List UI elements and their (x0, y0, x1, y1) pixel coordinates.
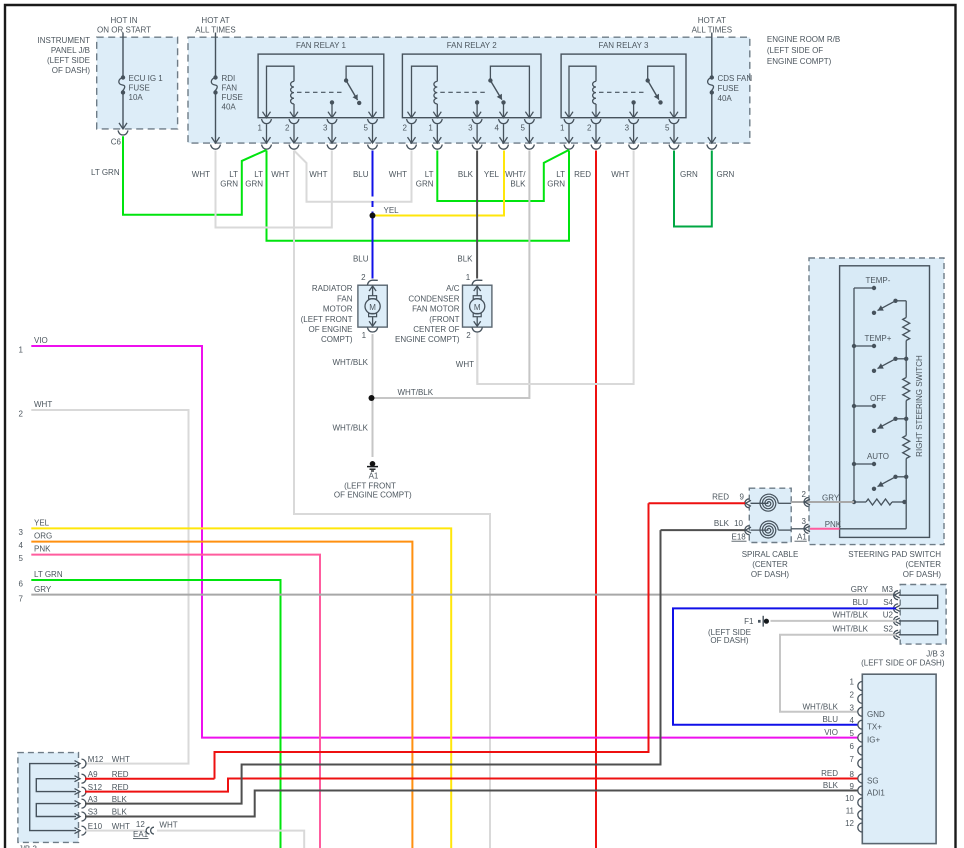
svg-text:U2: U2 (883, 611, 894, 620)
svg-text:2: 2 (285, 124, 290, 133)
svg-text:PNK: PNK (34, 545, 51, 554)
svg-text:3: 3 (850, 703, 855, 712)
svg-text:E10: E10 (88, 822, 103, 831)
svg-text:CONDENSER: CONDENSER (408, 294, 459, 303)
svg-text:9: 9 (740, 492, 745, 501)
svg-text:M3: M3 (882, 585, 894, 594)
svg-text:YEL: YEL (484, 170, 500, 179)
svg-text:WHT: WHT (192, 170, 210, 179)
svg-text:WHT: WHT (611, 170, 629, 179)
svg-text:FUSE: FUSE (129, 84, 150, 93)
svg-text:6: 6 (19, 580, 24, 589)
svg-text:WHT/: WHT/ (505, 170, 526, 179)
svg-text:LT: LT (556, 170, 565, 179)
svg-text:4: 4 (19, 541, 24, 550)
svg-text:3: 3 (323, 124, 328, 133)
svg-text:ALL TIMES: ALL TIMES (692, 26, 732, 35)
svg-text:FAN RELAY 2: FAN RELAY 2 (447, 41, 498, 50)
svg-text:OF DASH): OF DASH) (751, 570, 790, 579)
svg-text:(CENTER: (CENTER (752, 560, 788, 569)
svg-text:WHT/BLK: WHT/BLK (332, 358, 368, 367)
svg-text:10: 10 (734, 519, 743, 528)
svg-text:STEERING PAD SWITCH: STEERING PAD SWITCH (848, 550, 941, 559)
svg-text:WHT/BLK: WHT/BLK (802, 702, 838, 711)
svg-text:GRN: GRN (245, 180, 263, 189)
svg-text:WHT: WHT (112, 822, 130, 831)
svg-text:E18: E18 (732, 533, 747, 542)
svg-text:OF DASH): OF DASH) (710, 636, 749, 645)
svg-text:ENGINE COMPT): ENGINE COMPT) (767, 57, 832, 66)
svg-text:LT: LT (425, 170, 434, 179)
svg-text:BLK: BLK (457, 255, 473, 264)
svg-text:1: 1 (428, 124, 433, 133)
svg-text:(FRONT: (FRONT (429, 315, 459, 324)
svg-text:BLU: BLU (353, 170, 369, 179)
svg-text:RADIATOR: RADIATOR (312, 284, 353, 293)
svg-text:BLK: BLK (458, 170, 474, 179)
svg-text:BLU: BLU (822, 715, 838, 724)
svg-text:LT GRN: LT GRN (91, 168, 120, 177)
svg-text:YEL: YEL (384, 206, 400, 215)
svg-text:FUSE: FUSE (222, 93, 243, 102)
svg-text:RED: RED (112, 783, 129, 792)
svg-text:S4: S4 (883, 598, 893, 607)
svg-text:4: 4 (850, 716, 855, 725)
svg-text:FAN RELAY 3: FAN RELAY 3 (599, 41, 650, 50)
svg-text:5: 5 (665, 124, 670, 133)
svg-text:10: 10 (845, 794, 854, 803)
svg-text:(CENTER: (CENTER (905, 560, 941, 569)
svg-text:RED: RED (821, 769, 838, 778)
svg-text:OF ENGINE COMPT): OF ENGINE COMPT) (334, 491, 412, 500)
svg-text:12: 12 (845, 819, 854, 828)
svg-text:VIO: VIO (824, 728, 838, 737)
svg-text:ENGINE ROOM R/B: ENGINE ROOM R/B (767, 35, 840, 44)
svg-text:HOT AT: HOT AT (698, 16, 726, 25)
svg-text:3: 3 (468, 124, 473, 133)
svg-text:GRN: GRN (220, 180, 238, 189)
svg-text:GRN: GRN (680, 170, 698, 179)
svg-text:GRY: GRY (822, 494, 840, 503)
svg-text:WHT/BLK: WHT/BLK (832, 611, 868, 620)
svg-text:OF ENGINE: OF ENGINE (308, 325, 352, 334)
svg-text:2: 2 (802, 490, 807, 499)
svg-text:1: 1 (258, 124, 263, 133)
svg-text:LT: LT (254, 170, 263, 179)
svg-text:5: 5 (364, 124, 369, 133)
svg-text:CDS FAN: CDS FAN (718, 74, 753, 83)
svg-text:F1: F1 (744, 617, 754, 626)
svg-text:GRY: GRY (851, 585, 869, 594)
svg-text:FAN: FAN (337, 294, 353, 303)
svg-text:BLK: BLK (112, 795, 128, 804)
svg-text:2: 2 (403, 124, 408, 133)
svg-text:GRN: GRN (547, 180, 565, 189)
svg-text:COMPT): COMPT) (321, 335, 353, 344)
svg-text:S12: S12 (88, 783, 103, 792)
svg-text:40A: 40A (222, 103, 237, 112)
svg-text:1: 1 (850, 678, 855, 687)
svg-text:WHT: WHT (456, 360, 474, 369)
svg-text:1: 1 (560, 124, 565, 133)
svg-text:LT: LT (229, 170, 238, 179)
svg-text:40A: 40A (718, 94, 733, 103)
svg-text:5: 5 (19, 554, 24, 563)
svg-text:GRN: GRN (416, 180, 434, 189)
svg-text:1: 1 (19, 346, 24, 355)
svg-text:BLK: BLK (714, 519, 730, 528)
svg-text:WHT: WHT (159, 821, 177, 830)
svg-text:A9: A9 (88, 770, 98, 779)
svg-text:5: 5 (850, 729, 855, 738)
svg-text:(LEFT FRONT: (LEFT FRONT (344, 481, 396, 490)
svg-text:IG+: IG+ (867, 736, 880, 745)
svg-text:TEMP-: TEMP- (866, 276, 891, 285)
svg-text:OF DASH): OF DASH) (52, 66, 91, 75)
svg-text:FAN: FAN (222, 84, 238, 93)
svg-text:4: 4 (495, 124, 500, 133)
svg-text:RED: RED (712, 492, 729, 501)
svg-text:TEMP+: TEMP+ (865, 334, 892, 343)
svg-text:S2: S2 (883, 625, 893, 634)
svg-text:GRY: GRY (34, 585, 52, 594)
svg-text:ENGINE COMPT): ENGINE COMPT) (395, 335, 460, 344)
svg-text:10A: 10A (129, 93, 144, 102)
svg-text:7: 7 (850, 755, 855, 764)
svg-text:YEL: YEL (34, 518, 50, 527)
svg-text:ON OR START: ON OR START (97, 26, 151, 35)
svg-text:AUTO: AUTO (867, 452, 889, 461)
svg-text:RED: RED (574, 170, 591, 179)
svg-text:C6: C6 (111, 137, 122, 146)
svg-text:OFF: OFF (870, 394, 886, 403)
svg-text:11: 11 (846, 806, 855, 815)
svg-text:TX+: TX+ (867, 723, 882, 732)
svg-text:GRN: GRN (717, 170, 735, 179)
svg-text:3: 3 (625, 124, 630, 133)
svg-text:5: 5 (520, 124, 525, 133)
svg-text:BLU: BLU (852, 598, 868, 607)
svg-text:INSTRUMENT: INSTRUMENT (38, 36, 91, 45)
svg-text:LT GRN: LT GRN (34, 570, 63, 579)
svg-text:(LEFT SIDE: (LEFT SIDE (47, 56, 90, 65)
svg-text:GND: GND (867, 710, 885, 719)
svg-text:BLK: BLK (510, 180, 526, 189)
svg-text:PANEL J/B: PANEL J/B (51, 46, 90, 55)
svg-text:WHT: WHT (309, 170, 327, 179)
svg-text:(LEFT SIDE OF DASH): (LEFT SIDE OF DASH) (861, 658, 945, 667)
svg-text:RED: RED (112, 770, 129, 779)
svg-text:WHT: WHT (271, 170, 289, 179)
svg-text:WHT: WHT (389, 170, 407, 179)
svg-text:MOTOR: MOTOR (323, 305, 353, 314)
svg-text:J/B 3: J/B 3 (926, 649, 945, 658)
svg-text:RIGHT STEERING SWITCH: RIGHT STEERING SWITCH (915, 355, 924, 457)
svg-text:WHT/BLK: WHT/BLK (832, 625, 868, 634)
svg-text:SG: SG (867, 777, 879, 786)
svg-text:VIO: VIO (34, 336, 48, 345)
svg-text:2: 2 (19, 410, 24, 419)
svg-text:FUSE: FUSE (718, 84, 739, 93)
svg-text:WHT: WHT (112, 755, 130, 764)
svg-text:2: 2 (587, 124, 592, 133)
svg-text:3: 3 (802, 517, 807, 526)
svg-text:HOT AT: HOT AT (201, 16, 229, 25)
svg-text:SPIRAL CABLE: SPIRAL CABLE (742, 550, 799, 559)
svg-text:2: 2 (361, 273, 366, 282)
svg-text:PNK: PNK (825, 520, 842, 529)
svg-text:A1: A1 (797, 533, 807, 542)
svg-text:M: M (474, 303, 481, 312)
svg-text:1: 1 (362, 331, 367, 340)
svg-text:ADI1: ADI1 (867, 789, 885, 798)
svg-text:WHT/BLK: WHT/BLK (332, 423, 368, 432)
svg-text:J/B 3: J/B 3 (19, 844, 38, 848)
svg-text:2: 2 (850, 690, 855, 699)
svg-text:BLK: BLK (823, 781, 839, 790)
svg-text:A1: A1 (369, 471, 379, 480)
svg-text:ECU IG 1: ECU IG 1 (129, 74, 164, 83)
svg-text:CENTER OF: CENTER OF (413, 325, 459, 334)
svg-text:M12: M12 (88, 755, 104, 764)
svg-text:ALL TIMES: ALL TIMES (195, 26, 235, 35)
svg-text:A3: A3 (88, 795, 98, 804)
svg-text:OF DASH): OF DASH) (903, 570, 942, 579)
svg-text:WHT/BLK: WHT/BLK (398, 388, 434, 397)
svg-text:WHT: WHT (34, 400, 52, 409)
svg-text:BLU: BLU (353, 255, 369, 264)
svg-text:HOT IN: HOT IN (111, 16, 138, 25)
svg-text:6: 6 (850, 742, 855, 751)
svg-text:(LEFT FRONT: (LEFT FRONT (301, 315, 353, 324)
svg-text:FAN MOTOR: FAN MOTOR (412, 305, 460, 314)
svg-text:1: 1 (466, 273, 471, 282)
svg-text:2: 2 (466, 331, 471, 340)
svg-text:FAN RELAY 1: FAN RELAY 1 (296, 41, 347, 50)
svg-text:(LEFT SIDE OF: (LEFT SIDE OF (767, 46, 823, 55)
svg-text:3: 3 (19, 528, 24, 537)
svg-text:RDI: RDI (222, 74, 236, 83)
svg-text:A/C: A/C (446, 284, 460, 293)
svg-text:12: 12 (136, 820, 145, 829)
svg-text:EA1: EA1 (133, 830, 149, 839)
svg-text:M: M (369, 303, 376, 312)
svg-text:7: 7 (19, 595, 24, 604)
svg-text:ORG: ORG (34, 532, 52, 541)
svg-text:BLK: BLK (112, 808, 128, 817)
svg-text:S3: S3 (88, 808, 98, 817)
